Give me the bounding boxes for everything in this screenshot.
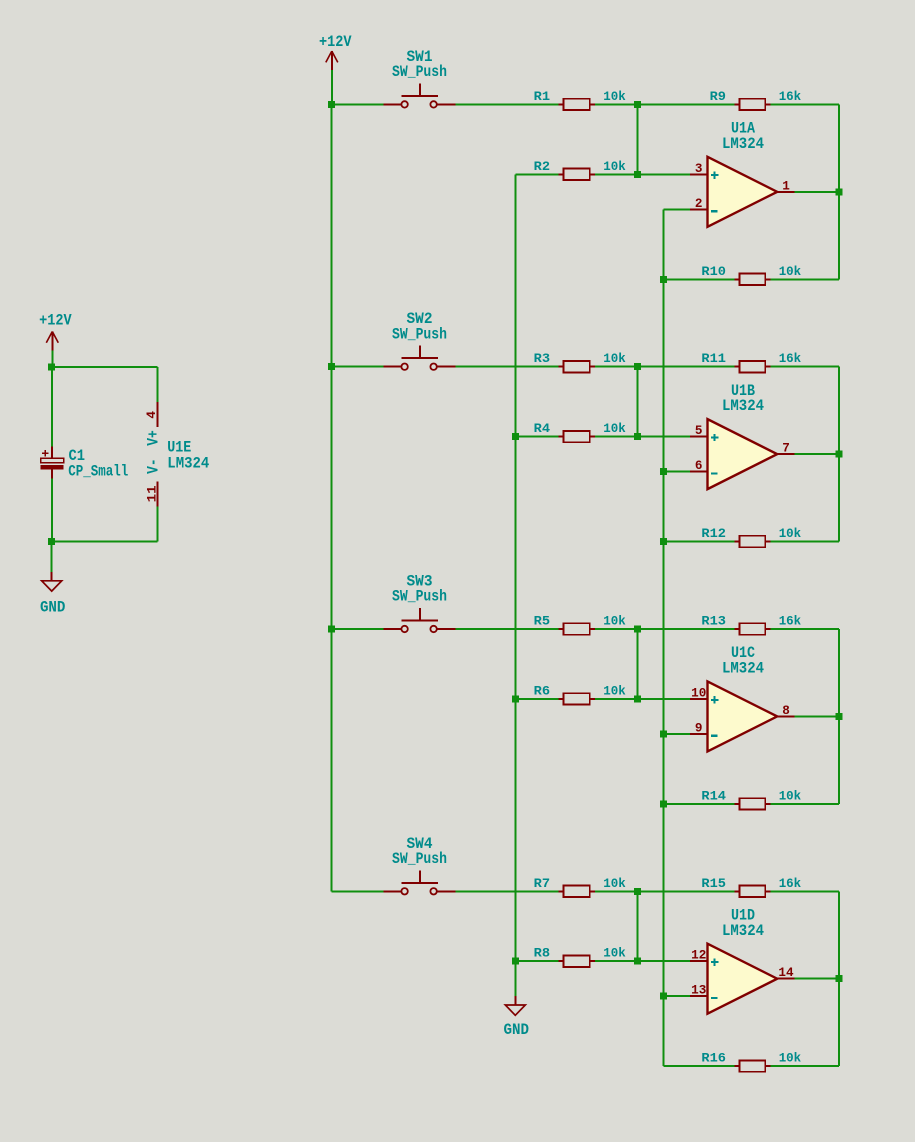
junction +12V bus row 3 xyxy=(328,626,335,633)
wire +12V bus xyxy=(331,104,333,891)
svg-text:R10: R10 xyxy=(701,265,726,279)
wire R3 to node xyxy=(595,366,637,368)
resistor R5 xyxy=(558,628,563,630)
svg-text:10k: 10k xyxy=(603,160,626,174)
wire node down to + input xyxy=(636,104,638,174)
wire bus to SW2 xyxy=(332,366,384,368)
wire R12 to output column xyxy=(770,541,839,543)
wire inverting bus to R14 xyxy=(664,803,735,805)
svg-text:2: 2 xyxy=(695,196,703,211)
wire bus to SW3 xyxy=(332,628,384,630)
wire node to R9 xyxy=(637,103,734,105)
wire node to + input xyxy=(637,436,690,438)
junction ground bus R4 xyxy=(512,433,519,440)
pin 4 (V+) of U1E xyxy=(156,402,158,427)
svg-text:R14: R14 xyxy=(701,789,726,803)
svg-text:LM324: LM324 xyxy=(722,922,764,940)
wire to C1 bottom node xyxy=(52,541,158,543)
svg-text:+12V: +12V xyxy=(39,312,72,330)
wire R5 to node xyxy=(595,628,637,630)
svg-text:11: 11 xyxy=(145,485,160,502)
svg-text:SW_Push: SW_Push xyxy=(392,850,447,868)
junction inverting bus R12 xyxy=(660,538,667,545)
svg-text:R7: R7 xyxy=(534,877,550,891)
resistor R16 xyxy=(734,1065,739,1067)
svg-text:R8: R8 xyxy=(534,947,550,961)
svg-text:R9: R9 xyxy=(710,90,726,104)
svg-text:16k: 16k xyxy=(779,615,802,629)
junction inverting bus R10 xyxy=(660,276,667,283)
svg-text:10k: 10k xyxy=(603,90,626,104)
pin 11 (V-) of U1E xyxy=(156,482,158,507)
svg-text:10k: 10k xyxy=(603,352,626,366)
resistor R10 xyxy=(734,278,739,280)
pin 2 (-) of U1A xyxy=(690,208,708,210)
wire R11 to output column xyxy=(770,366,839,368)
ground symbol GND xyxy=(51,572,53,581)
wire SW2 to R3 xyxy=(455,366,558,368)
svg-text:10k: 10k xyxy=(603,947,626,961)
pin 6 (-) of U1B xyxy=(690,471,708,473)
power symbol +12V xyxy=(51,332,53,351)
wire R2 to node xyxy=(595,173,637,175)
svg-text:16k: 16k xyxy=(779,877,802,891)
junction at C1 top node xyxy=(48,363,55,370)
svg-text:+12V: +12V xyxy=(319,33,352,51)
svg-text:10k: 10k xyxy=(603,684,626,698)
pin 13 (-) of U1D xyxy=(690,995,708,997)
wire bus to SW1 xyxy=(332,103,384,105)
wire node to R15 xyxy=(637,890,734,892)
switch SW1 (SW_Push) xyxy=(383,103,401,105)
junction inverting bus pin 6 xyxy=(660,468,667,475)
wire node to R11 xyxy=(637,366,734,368)
svg-text:10k: 10k xyxy=(779,527,802,541)
resistor R1 xyxy=(558,103,563,105)
svg-text:GND: GND xyxy=(40,599,66,617)
switch SW3 (SW_Push) xyxy=(383,628,401,630)
node junction + input U1A xyxy=(634,171,641,178)
svg-text:12: 12 xyxy=(691,948,706,963)
wire R10 to output column xyxy=(770,278,839,280)
junction inverting bus R14 xyxy=(660,800,667,807)
node junction R3/R11 xyxy=(634,363,641,370)
svg-text:R6: R6 xyxy=(534,684,550,698)
resistor R7 xyxy=(558,890,563,892)
svg-text:10k: 10k xyxy=(603,615,626,629)
wire down to pin 4 xyxy=(156,367,158,402)
resistor R13 xyxy=(734,628,739,630)
junction +12V bus row 2 xyxy=(328,363,335,370)
op-amp U1B LM324 xyxy=(708,419,778,489)
wire inverting bus to R10 xyxy=(664,278,735,280)
wire +12V to bus xyxy=(331,70,333,104)
svg-text:R13: R13 xyxy=(701,615,726,629)
wire R16 to output column xyxy=(770,1065,839,1067)
svg-text:9: 9 xyxy=(695,720,703,735)
resistor R12 xyxy=(734,541,739,543)
pin 1 (output) of U1A xyxy=(777,191,795,193)
svg-text:R4: R4 xyxy=(534,422,551,436)
wire +12V node to C1 xyxy=(51,367,53,447)
svg-text:5: 5 xyxy=(695,423,703,438)
wire to U1E V+ xyxy=(52,366,158,368)
resistor R3 xyxy=(558,366,563,368)
op-amp U1A LM324 xyxy=(708,157,778,227)
node junction + input U1C xyxy=(634,695,641,702)
pin 12 (+) of U1D xyxy=(690,960,708,962)
power symbol +12V xyxy=(331,51,333,70)
wire output U1D xyxy=(795,978,839,980)
svg-text:10k: 10k xyxy=(603,877,626,891)
wire output column U1B xyxy=(838,367,840,542)
svg-text:16k: 16k xyxy=(779,352,802,366)
pin 3 (+) of U1A xyxy=(690,173,708,175)
pin 9 (-) of U1C xyxy=(690,733,708,735)
svg-text:10k: 10k xyxy=(603,422,626,436)
wire output U1C xyxy=(795,715,839,717)
wire inverting bus to - input xyxy=(664,995,690,997)
svg-text:GND: GND xyxy=(504,1021,530,1039)
wire output column U1A xyxy=(838,104,840,279)
wire R6 to node xyxy=(595,698,637,700)
node junction + input U1B xyxy=(634,433,641,440)
svg-text:1: 1 xyxy=(782,178,790,193)
svg-text:R15: R15 xyxy=(701,877,726,891)
junction output U1C xyxy=(835,713,842,720)
svg-text:R5: R5 xyxy=(534,615,550,629)
wire node to + input xyxy=(637,960,690,962)
pin 7 (output) of U1B xyxy=(777,453,795,455)
svg-text:R16: R16 xyxy=(701,1052,726,1066)
wire R7 to node xyxy=(595,890,637,892)
junction output U1A xyxy=(835,188,842,195)
pin 5 (+) of U1B xyxy=(690,436,708,438)
wire SW3 to R5 xyxy=(455,628,558,630)
svg-text:R2: R2 xyxy=(534,160,550,174)
wire inverting bus to - input xyxy=(664,733,690,735)
wire node to + input xyxy=(637,698,690,700)
junction inverting bus pin 13 xyxy=(660,993,667,1000)
wire from pin 11 xyxy=(156,506,158,541)
wire node down to + input xyxy=(636,629,638,699)
op-amp U1D LM324 xyxy=(708,944,778,1014)
svg-text:LM324: LM324 xyxy=(722,135,764,153)
wire +12V to node xyxy=(51,351,53,367)
switch SW4 (SW_Push) xyxy=(383,890,401,892)
wire inverting bus to - input xyxy=(664,208,690,210)
svg-text:16k: 16k xyxy=(779,90,802,104)
wire output U1B xyxy=(795,453,839,455)
resistor R8 xyxy=(558,960,563,962)
node junction R7/R15 xyxy=(634,888,641,895)
wire bus to SW4 xyxy=(332,890,384,892)
svg-text:SW_Push: SW_Push xyxy=(392,325,447,343)
wire node down to + input xyxy=(636,367,638,437)
svg-text:R12: R12 xyxy=(701,527,726,541)
svg-text:LM324: LM324 xyxy=(167,455,209,473)
wire C1 to bottom node xyxy=(51,479,53,542)
wire to GND xyxy=(51,542,53,577)
node junction R5/R13 xyxy=(634,626,641,633)
ground symbol GND xyxy=(514,996,516,1005)
wire ground bus to R8 xyxy=(515,960,558,962)
svg-text:R3: R3 xyxy=(534,352,550,366)
svg-text:8: 8 xyxy=(782,703,790,718)
resistor R14 xyxy=(734,803,739,805)
resistor R11 xyxy=(734,366,739,368)
svg-text:13: 13 xyxy=(691,983,706,998)
wire R8 to node xyxy=(595,960,637,962)
junction ground bus R6 xyxy=(512,695,519,702)
wire inverting bus xyxy=(663,209,665,1066)
svg-text:V+: V+ xyxy=(144,430,162,446)
wire R4 to node xyxy=(595,436,637,438)
junction ground bus R8 xyxy=(512,958,519,965)
junction inverting bus pin 9 xyxy=(660,730,667,737)
node junction R1/R9 xyxy=(634,101,641,108)
svg-text:R11: R11 xyxy=(701,352,726,366)
pin 8 (output) of U1C xyxy=(777,715,795,717)
svg-text:10k: 10k xyxy=(779,1052,802,1066)
pin 10 (+) of U1C xyxy=(690,698,708,700)
resistor R4 xyxy=(558,436,563,438)
wire output U1A xyxy=(795,191,839,193)
switch SW2 (SW_Push) xyxy=(383,366,401,368)
wire ground bus to R6 xyxy=(515,698,558,700)
wire inverting bus to R12 xyxy=(664,541,735,543)
pin 14 (output) of U1D xyxy=(777,978,795,980)
wire node to R13 xyxy=(637,628,734,630)
svg-text:7: 7 xyxy=(782,441,790,456)
wire ground bus to R4 xyxy=(515,436,558,438)
svg-text:4: 4 xyxy=(144,411,159,419)
wire inverting bus to R16 xyxy=(664,1065,735,1067)
svg-text:R1: R1 xyxy=(534,90,550,104)
wire R9 to output column xyxy=(770,103,839,105)
wire R13 to output column xyxy=(770,628,839,630)
svg-text:3: 3 xyxy=(695,161,703,176)
wire inverting bus to - input xyxy=(664,471,690,473)
junction +12V bus row 1 xyxy=(328,101,335,108)
wire node to + input xyxy=(637,173,690,175)
wire output column U1C xyxy=(838,629,840,804)
junction output U1B xyxy=(835,451,842,458)
node junction + input U1D xyxy=(634,958,641,965)
svg-text:LM324: LM324 xyxy=(722,397,764,415)
wire R1 to node xyxy=(595,103,637,105)
svg-text:6: 6 xyxy=(695,458,703,473)
resistor R15 xyxy=(734,890,739,892)
wire R14 to output column xyxy=(770,803,839,805)
junction output U1D xyxy=(835,975,842,982)
wire SW4 to R7 xyxy=(455,890,558,892)
svg-text:SW_Push: SW_Push xyxy=(392,588,447,606)
resistor R6 xyxy=(558,698,563,700)
svg-text:14: 14 xyxy=(778,965,793,980)
op-amp U1C LM324 xyxy=(708,681,778,751)
wire output column U1D xyxy=(838,891,840,1066)
junction at C1 bottom node xyxy=(48,538,55,545)
resistor R2 xyxy=(558,173,563,175)
svg-text:SW_Push: SW_Push xyxy=(392,63,447,81)
wire node down to + input xyxy=(636,891,638,961)
svg-text:LM324: LM324 xyxy=(722,660,764,678)
resistor R9 xyxy=(734,103,739,105)
wire ground bus to R2 xyxy=(515,173,558,175)
svg-text:10k: 10k xyxy=(779,265,802,279)
svg-text:10: 10 xyxy=(691,685,706,700)
svg-text:V-: V- xyxy=(144,458,162,474)
wire R15 to output column xyxy=(770,890,839,892)
wire SW1 to R1 xyxy=(455,103,558,105)
svg-text:CP_Small: CP_Small xyxy=(68,462,128,480)
svg-text:10k: 10k xyxy=(779,789,802,803)
wire ground bus xyxy=(514,174,516,996)
